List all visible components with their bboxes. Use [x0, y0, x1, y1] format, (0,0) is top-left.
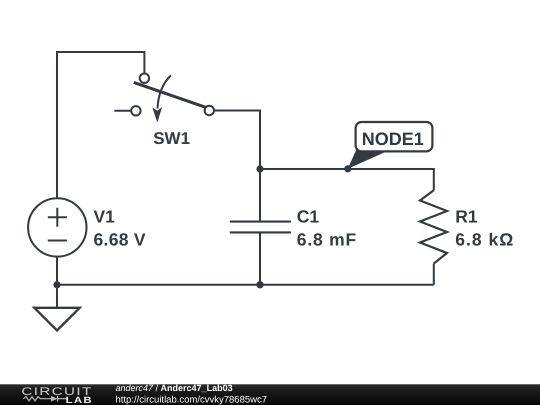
wire node row: C1 top to R1 top [260, 169, 434, 190]
wire C1 bottom lead [259, 233, 261, 285]
switch SW1 top terminal [140, 74, 149, 83]
wire R1 bottom lead [433, 264, 435, 285]
label V1 value [94, 207, 146, 250]
svg-text:6.8 mF: 6.8 mF [297, 229, 357, 249]
wire C1 top lead [259, 169, 261, 221]
switch SW1 left throw stub wire [114, 110, 131, 112]
label R1 value [455, 207, 514, 250]
node NODE1 callout box [356, 122, 433, 151]
wire switch right terminal to capacitor top [214, 111, 260, 170]
svg-text:SW1: SW1 [153, 129, 190, 148]
svg-text:R1: R1 [455, 207, 478, 227]
svg-text:LAB: LAB [66, 395, 93, 405]
svg-text:V1: V1 [94, 207, 116, 227]
switch SW1 right terminal [205, 106, 214, 115]
junction dot NODE1 [344, 165, 351, 172]
switch SW1 left throw terminal [131, 106, 140, 115]
capacitor C1 plates [230, 222, 291, 233]
wire bottom rail [57, 284, 434, 286]
svg-text:NODE1: NODE1 [362, 129, 424, 149]
svg-text:6.8 kΩ: 6.8 kΩ [455, 229, 514, 249]
svg-text:6.68 V: 6.68 V [94, 229, 146, 249]
resistor R1 zigzag [420, 190, 447, 263]
wire V1 bottom lead [56, 257, 58, 285]
wire ground lead [56, 285, 58, 308]
V1 minus sign [48, 240, 67, 242]
switch SW1 actuation arrow [152, 75, 171, 122]
V1 plus sign [48, 208, 67, 227]
svg-text:http://circuitlab.com/cvvky786: http://circuitlab.com/cvvky78685wc7 [116, 394, 268, 405]
svg-text:anderc47 / Anderc47_Lab03: anderc47 / Anderc47_Lab03 [116, 383, 233, 393]
label C1 value [297, 207, 357, 250]
svg-text:C1: C1 [297, 207, 320, 227]
voltage source V1 body [28, 198, 86, 256]
junction dot C1 top [256, 165, 263, 172]
wire top-left loop: V1 top to switch [57, 52, 144, 198]
CircuitLab logo resistor-diode glyph [24, 396, 67, 402]
node NODE1 callout tail [348, 149, 387, 169]
junction dot C1 bottom [256, 281, 263, 288]
junction dot V1/ground [53, 281, 60, 288]
switch SW1 blade [134, 82, 208, 108]
ground [34, 308, 79, 331]
